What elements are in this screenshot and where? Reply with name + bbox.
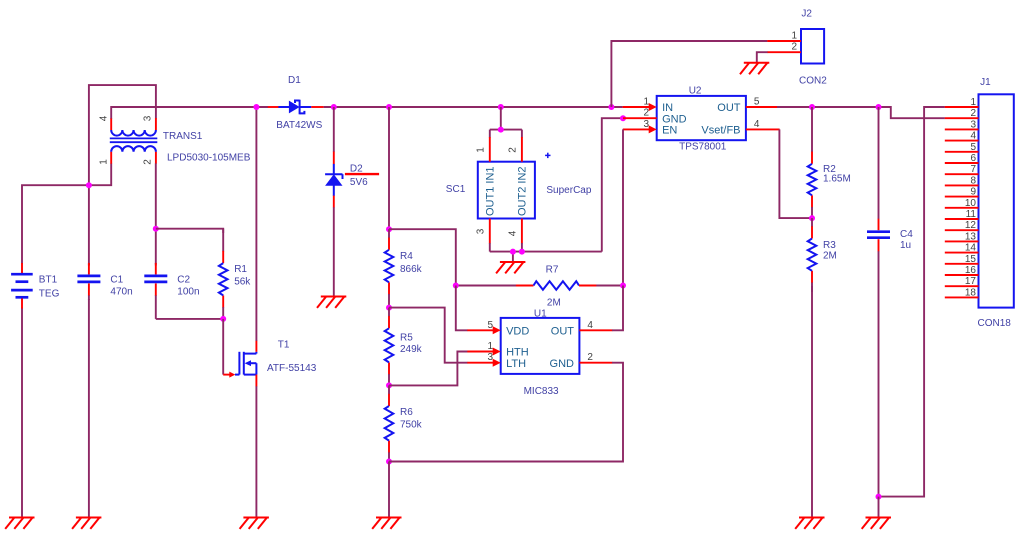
svg-text:5: 5: [487, 320, 493, 331]
wire: SC1 top pins to bus: [500, 107, 502, 130]
transistor T1: [235, 340, 256, 386]
svg-text:18: 18: [965, 287, 977, 298]
node: OUT junction at R2: [809, 104, 815, 110]
svg-text:2M: 2M: [547, 298, 561, 309]
wire: R1/C2 bottom row: [156, 318, 223, 320]
node: bus junction at U2 IN / J2: [608, 104, 614, 110]
pin 12 stub of J1: [945, 229, 979, 231]
wire: OUT bus to J1 pin 2: [777, 107, 945, 118]
node: R6 bottom junction: [386, 459, 392, 465]
transformer TRANS1: [110, 118, 158, 164]
svg-text:LTH: LTH: [506, 358, 526, 370]
wire: ground tap drop: [512, 252, 514, 262]
svg-text:14: 14: [965, 243, 977, 254]
node: R7 right junction: [620, 283, 626, 289]
pin 5 stub of U1 VDD: [467, 326, 500, 334]
svg-text:R6: R6: [400, 407, 413, 418]
wire: C1 column up to top-left loop to transformer pin 3: [89, 85, 156, 185]
pin 1 stub of J1: [945, 106, 979, 108]
svg-text:R4: R4: [400, 251, 413, 262]
svg-text:4: 4: [507, 230, 518, 236]
svg-text:J2: J2: [801, 9, 812, 20]
svg-text:GND: GND: [662, 113, 687, 125]
svg-text:3: 3: [970, 119, 976, 130]
svg-text:J1: J1: [980, 77, 991, 88]
diode D1 BAT42WS: [268, 100, 324, 115]
wire: R5/R6 junction to U1 HTH: [389, 352, 468, 386]
svg-text:4: 4: [99, 115, 110, 121]
resistor R2: [808, 107, 817, 218]
wire: battery bottom to ground: [21, 308, 23, 518]
wire: C4 bottom to ground: [878, 497, 880, 518]
node: bus junction at T1 drain: [253, 104, 259, 110]
svg-text:LPD5030-105MEB: LPD5030-105MEB: [167, 152, 251, 163]
pin 14 stub of J1: [945, 252, 979, 254]
node: bus junction at D2: [331, 104, 337, 110]
pin 4 stub of U1 OUT: [579, 329, 612, 331]
svg-text:1: 1: [643, 97, 649, 108]
pin 3 stub of U2 EN: [623, 125, 657, 133]
resistor R5: [385, 308, 394, 386]
wire: left junction to transformer pin 1 column: [89, 163, 111, 185]
svg-text:BAT42WS: BAT42WS: [276, 120, 322, 131]
svg-text:16: 16: [965, 265, 977, 276]
svg-text:2: 2: [791, 42, 797, 53]
pin 5 stub of U2 OUT: [746, 106, 777, 108]
wire: branch to R1 top: [156, 229, 223, 233]
pin 1 stub of J2: [767, 40, 801, 42]
pin 1 stub of U1 HTH: [467, 348, 500, 356]
svg-text:R1: R1: [234, 264, 247, 275]
pin 2 stub of U2 GND: [623, 117, 657, 119]
svg-text:3: 3: [143, 115, 154, 121]
wire: SC1 pin1-pin2 top link: [490, 129, 522, 131]
node: R5/R6 junction: [386, 382, 392, 388]
svg-text:13: 13: [965, 231, 977, 242]
node: C2/R1 top junction: [153, 226, 159, 232]
pin 2 stub of U1 GND: [579, 362, 612, 364]
pin 15 stub of J1: [945, 263, 979, 265]
svg-text:VDD: VDD: [506, 326, 529, 338]
ground R3: [795, 518, 824, 529]
svg-text:9: 9: [970, 187, 976, 198]
svg-text:C4: C4: [900, 229, 913, 240]
wire: J1 pin1 column down to C4 ground: [879, 107, 945, 497]
no-fit strike mark of D2: [345, 173, 379, 175]
svg-text:2: 2: [587, 352, 593, 363]
pin 2 stub of J2: [767, 51, 801, 53]
connector J1 box: [979, 94, 1014, 307]
connector J2 box: [801, 29, 824, 64]
capacitor C4: [867, 107, 890, 497]
svg-text:7: 7: [970, 164, 976, 175]
svg-text:5: 5: [970, 142, 976, 153]
wire: R4/R5 junction to U1 LTH: [389, 308, 468, 363]
svg-text:17: 17: [965, 276, 977, 287]
ground T1 source: [240, 518, 269, 529]
svg-text:CON2: CON2: [799, 75, 827, 86]
ground J2: [740, 63, 769, 74]
svg-text:HTH: HTH: [506, 347, 529, 359]
svg-text:TPS78001: TPS78001: [679, 141, 727, 152]
svg-text:SC1: SC1: [446, 184, 466, 195]
svg-text:2: 2: [507, 147, 518, 153]
svg-text:56k: 56k: [234, 277, 251, 288]
node: R4 top junction: [386, 226, 392, 232]
svg-text:SuperCap: SuperCap: [546, 185, 591, 196]
svg-text:2M: 2M: [823, 250, 837, 261]
wire: J2 pin1 to bus junction: [611, 41, 767, 107]
wire: branch from R4 top to R7 left column: [389, 229, 456, 285]
svg-text:EN: EN: [662, 125, 677, 137]
pin 11 stub of J1: [945, 218, 979, 220]
pin 5 stub of J1: [945, 151, 979, 153]
node: R2/R3 junction: [809, 215, 815, 221]
svg-text:470n: 470n: [110, 286, 132, 297]
transistor T1 gate lead with arrow: [223, 372, 235, 378]
wire: C1 bottom to ground: [88, 299, 90, 518]
ground SC1: [496, 262, 525, 273]
svg-text:D1: D1: [288, 75, 301, 86]
svg-text:1: 1: [99, 159, 110, 165]
svg-text:2: 2: [143, 159, 154, 165]
pin 1 stub of SC1: [489, 130, 491, 162]
svg-text:6: 6: [970, 153, 976, 164]
ground D2: [317, 297, 346, 308]
zener diode D2: [325, 107, 342, 297]
svg-text:OUT: OUT: [717, 102, 741, 114]
svg-text:R5: R5: [400, 332, 413, 343]
svg-text:5: 5: [754, 97, 760, 108]
pin 4 stub of J1: [945, 140, 979, 142]
resistor R3: [808, 218, 817, 292]
pin 9 stub of J1: [945, 196, 979, 198]
wire: EN column down to R7 right junction: [622, 129, 624, 285]
resistor R6: [385, 385, 394, 461]
svg-text:T1: T1: [278, 340, 290, 351]
pin 17 stub of J1: [945, 285, 979, 287]
node: C4 bottom junction: [876, 494, 882, 500]
wire: battery top to left junction row: [22, 185, 89, 263]
svg-text:15: 15: [965, 254, 977, 265]
wire: bus from D1 to U2 IN: [324, 106, 623, 108]
svg-text:U1: U1: [534, 308, 547, 319]
svg-text:TEG: TEG: [39, 289, 60, 300]
svg-text:4: 4: [587, 320, 593, 331]
svg-text:U2: U2: [689, 86, 702, 97]
node: SC1 pin4 junction: [519, 249, 525, 255]
pin 10 stub of J1: [945, 207, 979, 209]
node: bus junction at SC1: [498, 104, 504, 110]
svg-text:1: 1: [487, 341, 493, 352]
svg-text:1: 1: [970, 97, 976, 108]
pin 2 stub of SC1: [521, 130, 523, 162]
pin 3 stub of SC1: [489, 219, 491, 252]
svg-text:C2: C2: [177, 274, 190, 285]
svg-text:R7: R7: [546, 264, 559, 275]
resistor R1: [219, 229, 228, 319]
op-amp U2 regulator box: [657, 96, 746, 140]
svg-text:1: 1: [475, 147, 486, 153]
op-amp U1 supervisor box: [501, 318, 580, 374]
svg-text:Vset/FB: Vset/FB: [701, 125, 740, 137]
svg-text:8: 8: [970, 175, 976, 186]
svg-text:1.65M: 1.65M: [823, 174, 851, 185]
svg-text:1: 1: [791, 31, 797, 42]
pin 3 stub of J1: [945, 128, 979, 130]
pin 6 stub of J1: [945, 162, 979, 164]
svg-text:4: 4: [754, 119, 760, 130]
ground C4: [862, 518, 891, 529]
node: bus junction at R4: [386, 104, 392, 110]
wire: R7 left junction down to U1 VDD: [456, 286, 468, 331]
node: SC1 top junction: [498, 127, 504, 133]
ground BT1: [5, 518, 34, 529]
pin 7 stub of J1: [945, 173, 979, 175]
svg-text:3: 3: [643, 119, 649, 130]
svg-text:D2: D2: [350, 164, 363, 175]
polarity plus mark of SC1: [545, 153, 550, 158]
svg-text:OUT: OUT: [551, 326, 575, 338]
wire: transformer pin 2 down to C2: [155, 163, 157, 265]
svg-text:ATF-55143: ATF-55143: [267, 363, 317, 374]
svg-text:100n: 100n: [177, 286, 199, 297]
capacitor C1: [77, 263, 100, 300]
svg-text:CON18: CON18: [978, 318, 1012, 329]
pin 1 stub of U2 IN: [623, 103, 657, 111]
svg-text:866k: 866k: [400, 264, 423, 275]
wire: C1 column down: [88, 185, 90, 265]
svg-text:GND: GND: [550, 358, 575, 370]
pin 8 stub of J1: [945, 184, 979, 186]
wire: T1 source down to ground: [255, 386, 257, 517]
wire: R3 bottom to ground: [811, 286, 813, 518]
svg-text:750k: 750k: [400, 420, 423, 431]
pin 3 stub of U1 LTH: [467, 359, 500, 367]
pin 16 stub of J1: [945, 274, 979, 276]
svg-text:3: 3: [487, 352, 493, 363]
supercapacitor SC1 box: [478, 162, 535, 219]
svg-text:12: 12: [965, 220, 977, 231]
svg-text:4: 4: [970, 131, 976, 142]
ground C1: [72, 518, 101, 529]
battery BT1: [11, 263, 33, 309]
wire: R6 bottom to ground: [388, 462, 390, 518]
wire: SC1 bottom row up to U2 GND row: [602, 118, 623, 251]
resistor R7: [456, 281, 623, 290]
wire: J2 pin2 to ground: [757, 52, 768, 63]
pin 13 stub of J1: [945, 240, 979, 242]
wire: T1 drain up to bus: [255, 107, 257, 341]
svg-text:1u: 1u: [900, 240, 911, 251]
node: U2 GND corner dot: [620, 115, 626, 121]
wire: main bus from transformer pin 4 to D1: [111, 107, 268, 119]
pin 2 stub of J1: [945, 117, 979, 119]
svg-text:BT1: BT1: [39, 275, 58, 286]
svg-text:2: 2: [970, 108, 976, 119]
wire: SC1 bottom row: [490, 251, 602, 253]
svg-text:TRANS1: TRANS1: [163, 131, 203, 142]
ground R6: [372, 518, 401, 529]
pin 4 stub of SC1: [521, 219, 523, 252]
wire: U1 OUT up to R7 right junction: [612, 286, 623, 331]
node: SC1 ground tap: [510, 249, 516, 255]
svg-text:OUT2 IN2: OUT2 IN2: [516, 166, 528, 216]
svg-text:11: 11: [966, 209, 977, 220]
pin 18 stub of J1: [945, 296, 979, 298]
pin 4 stub of U2 Vset/FB: [746, 128, 780, 130]
svg-text:3: 3: [475, 228, 486, 234]
node: R1 bottom junction: [220, 316, 226, 322]
wire: junction down to T1 gate: [222, 319, 224, 375]
wire: R4 column from bus: [388, 107, 390, 229]
node: left junction dot: [86, 182, 92, 188]
svg-text:5V6: 5V6: [350, 177, 368, 188]
svg-text:MIC833: MIC833: [524, 386, 559, 397]
node: R4/R5 junction: [386, 305, 392, 311]
svg-text:C1: C1: [110, 274, 123, 285]
svg-text:10: 10: [965, 198, 977, 209]
node: R7 left junction: [453, 283, 459, 289]
node: OUT junction at C4: [876, 104, 882, 110]
resistor R4: [385, 229, 394, 307]
svg-text:IN: IN: [662, 102, 673, 114]
wire: U1 GND down and left to R6 bottom: [389, 363, 623, 462]
capacitor C2: [144, 263, 167, 319]
svg-text:OUT1 IN1: OUT1 IN1: [484, 166, 496, 216]
wire: Vset/FB to R2/R3 junction: [779, 129, 812, 218]
svg-text:2: 2: [643, 108, 649, 119]
svg-text:249k: 249k: [400, 344, 423, 355]
